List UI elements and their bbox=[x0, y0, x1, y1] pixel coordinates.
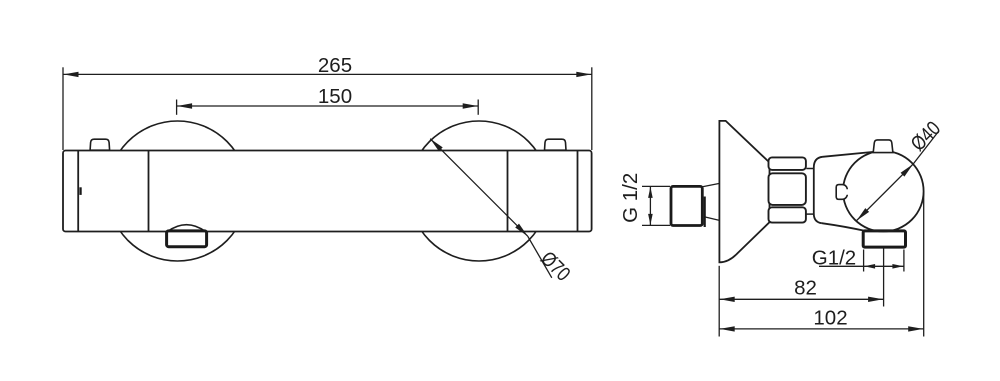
cartridge circle Ø40 bbox=[843, 151, 924, 232]
connection nut middle facet bbox=[769, 173, 806, 205]
connection nut bottom facet bbox=[769, 207, 806, 222]
dimension 102 arrow right bbox=[908, 326, 923, 331]
dimension Ø40 arrow lower bbox=[855, 208, 869, 222]
inlet flange edge bbox=[704, 197, 706, 228]
diverter dome bbox=[168, 225, 206, 232]
dimension Ø70 diagonal line bbox=[430, 139, 528, 237]
dimension 150 tick left bbox=[176, 100, 178, 115]
dimension G1/2 outlet arrow left bbox=[864, 264, 875, 269]
nut-body connector top bbox=[806, 168, 814, 170]
dimension Ø40 diagonal line bbox=[857, 164, 914, 221]
dimension O70 leader tail bbox=[528, 236, 552, 278]
dimension 82 arrow left bbox=[720, 297, 735, 302]
nut-body connector bottom bbox=[806, 213, 814, 215]
retaining tab bbox=[836, 185, 847, 200]
valve housing bottom edge bbox=[822, 223, 865, 231]
outlet G1/2 block bbox=[863, 231, 905, 247]
svg-text:150: 150 bbox=[318, 85, 352, 108]
svg-text:G1/2: G1/2 bbox=[812, 246, 856, 269]
right handle inner line bbox=[577, 151, 579, 232]
dimension G1/2 inlet line bbox=[649, 186, 651, 225]
dimension G1/2 inlet arrow up bbox=[648, 187, 653, 198]
dimension 82 arrow right bbox=[868, 297, 883, 302]
temperature indicator tick bbox=[79, 187, 81, 195]
dimension Ø40 arrow upper bbox=[901, 162, 915, 176]
valve housing left edge bbox=[814, 157, 823, 223]
adjuster stem bbox=[873, 140, 893, 153]
dimension Ø70 arrow lower bbox=[515, 224, 529, 238]
dimension 265 arrow left bbox=[64, 72, 79, 77]
left handle inner line bbox=[77, 151, 79, 232]
inlet connector top line bbox=[703, 184, 719, 187]
escutcheon circle right Ø70 bbox=[409, 121, 549, 261]
escutcheon circle left Ø70 bbox=[108, 121, 248, 261]
svg-text:Ø40: Ø40 bbox=[906, 117, 945, 156]
dimension G1/2 outlet leader and line bbox=[819, 265, 904, 267]
dimension 150 arrow left bbox=[177, 103, 192, 108]
outlet centreline bbox=[883, 249, 885, 307]
dimension 82 line bbox=[719, 298, 883, 300]
valve housing top edge bbox=[823, 152, 874, 157]
connection nut top facet bbox=[769, 157, 806, 170]
right handle divider bbox=[507, 151, 509, 232]
dimension 265 extension line left bbox=[62, 67, 64, 150]
diverter button bbox=[167, 231, 207, 247]
dimension 150 arrow right bbox=[463, 103, 478, 108]
inlet pipe G1/2 square bbox=[671, 186, 702, 225]
svg-text:265: 265 bbox=[318, 54, 352, 77]
svg-text:102: 102 bbox=[813, 306, 847, 329]
inlet connector bottom line bbox=[705, 217, 719, 220]
left handle divider bbox=[148, 151, 150, 232]
dimension G1/2 outlet arrow right bbox=[892, 264, 903, 269]
svg-text:82: 82 bbox=[794, 277, 817, 300]
dimension 102 arrow left bbox=[720, 326, 735, 331]
body right extension line bbox=[923, 191, 925, 337]
dimension 150 line bbox=[177, 105, 479, 107]
mixer bar body bbox=[63, 151, 592, 232]
dimension 102 line bbox=[719, 328, 924, 330]
dimension G1/2 outlet extension right bbox=[903, 250, 905, 272]
dimension 265 extension line right bbox=[591, 67, 593, 150]
left handle top cap bbox=[90, 139, 110, 150]
dimension 265 arrow right bbox=[576, 72, 591, 77]
wall extension line bbox=[718, 266, 720, 337]
dimension Ø70 arrow upper bbox=[428, 137, 442, 151]
svg-text:G 1/2: G 1/2 bbox=[619, 173, 642, 223]
dimension G1/2 inlet tick top bbox=[642, 185, 670, 187]
dimension O40 leader tail bbox=[913, 131, 939, 164]
dimension G1/2 outlet extension left bbox=[863, 250, 865, 272]
wall cone escutcheon bbox=[719, 121, 769, 263]
svg-text:Ø70: Ø70 bbox=[536, 247, 575, 286]
dimension G1/2 inlet tick bottom bbox=[642, 224, 670, 226]
dimension G1/2 inlet arrow down bbox=[648, 214, 653, 225]
dimension 265 line bbox=[63, 73, 592, 75]
right handle top cap bbox=[545, 139, 567, 150]
dimension 150 tick right bbox=[477, 100, 479, 115]
